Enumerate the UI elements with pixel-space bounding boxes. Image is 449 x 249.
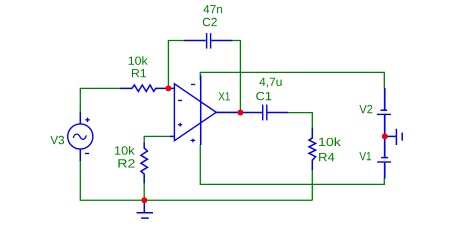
label R1 value 10k: [129, 56, 148, 65]
wire V3 plus terminal up and right to R1: [80, 88, 120, 112]
label V3: [50, 136, 64, 144]
wire V3 minus terminal down to ground rail: [79, 161, 81, 201]
junction battery midpoint node: [382, 133, 388, 139]
wire R2 bottom lead to ground rail: [143, 183, 145, 200]
junction output node: [237, 110, 243, 116]
wire node A up to C2 left lead: [168, 41, 184, 89]
capacitor C2: [184, 33, 233, 49]
wire R1 right lead to node A: [167, 87, 169, 89]
junction ground rail node: [141, 197, 147, 203]
battery V1: [377, 136, 391, 178]
wire op-amp bottom supply pin to battery V1 bottom: [200, 145, 384, 185]
label R4 value 10k: [319, 137, 341, 146]
wire C2 right lead down to output node: [232, 41, 241, 113]
wire non-inverting input to R2 top: [144, 136, 170, 142]
resistor R2: [141, 142, 148, 183]
ground at battery midpoint (pointing right): [385, 129, 402, 145]
label V2: [359, 105, 372, 113]
ground at bottom rail: [137, 200, 153, 218]
label C2: [203, 18, 217, 26]
junction node A (inverting input): [165, 85, 171, 91]
label C2 value 47n: [203, 5, 222, 13]
resistor R1: [120, 85, 168, 91]
label C1: [256, 92, 271, 100]
label C1 value 4,7u: [259, 78, 281, 88]
op-amp X1: [168, 76, 240, 146]
voltage source V3: [68, 112, 93, 161]
label X1: [219, 92, 230, 100]
label R1: [132, 69, 146, 77]
label R2: [118, 159, 134, 167]
wire C1 right lead to R4 top: [288, 113, 313, 128]
wire R4 bottom lead down to ground rail: [311, 170, 313, 200]
capacitor C1: [243, 105, 288, 121]
wire op-amp top supply pin to battery V2 top: [200, 72, 384, 88]
battery V2: [377, 88, 391, 137]
label R2 value 10k: [115, 146, 135, 155]
resistor R4: [309, 128, 316, 171]
wire bottom ground rail: [80, 199, 313, 201]
label R4: [319, 153, 334, 161]
label V1: [359, 152, 371, 160]
